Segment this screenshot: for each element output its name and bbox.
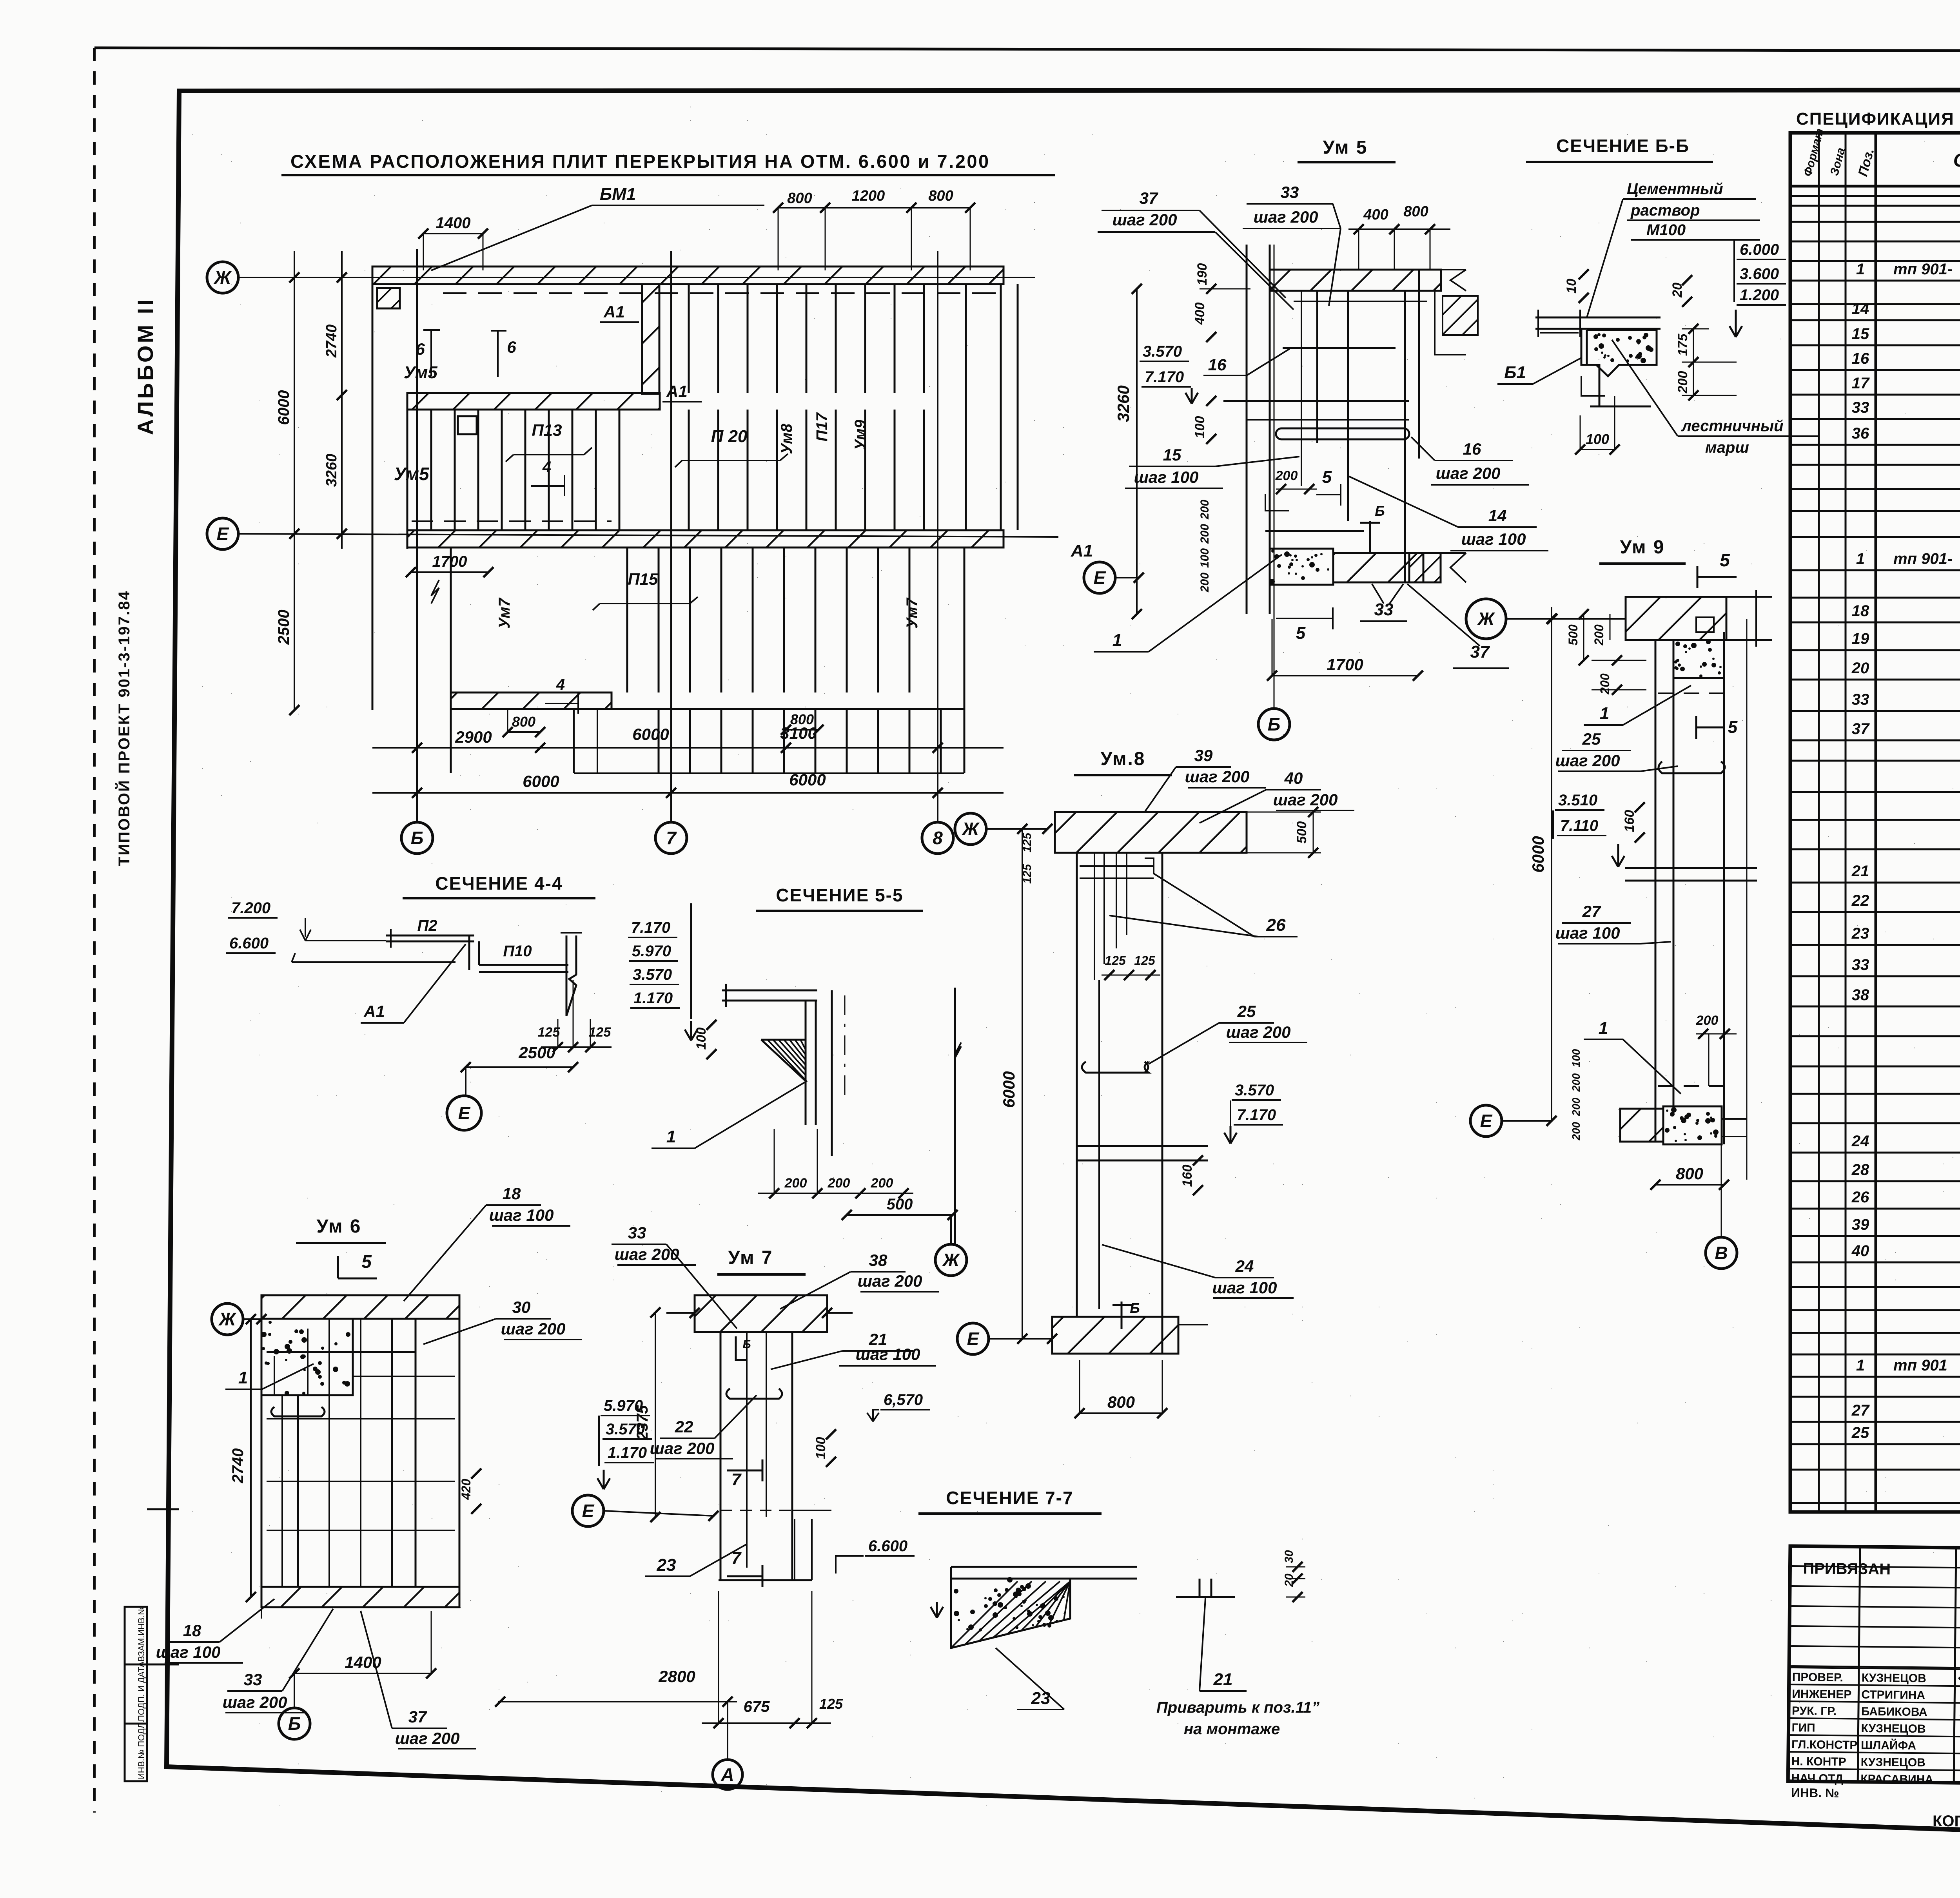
svg-text:КОПИРОВАЛ: КОРШУНОВА: КОПИРОВАЛ: КОРШУНОВА <box>1933 1813 1960 1830</box>
svg-text:2740: 2740 <box>229 1448 247 1484</box>
svg-text:26: 26 <box>1266 915 1286 935</box>
svg-text:16: 16 <box>1208 355 1227 374</box>
svg-text:1700: 1700 <box>1327 655 1363 674</box>
plan axis circle B <box>401 822 433 854</box>
um5 top rebar details <box>1294 301 1427 302</box>
svg-text:Ум9: Ум9 <box>852 419 869 450</box>
svg-text:М100: М100 <box>1646 221 1686 239</box>
um7 rebar verticals <box>746 1332 748 1568</box>
svg-text:Б1: Б1 <box>1504 363 1526 382</box>
svg-text:шаг 100: шаг 100 <box>1555 924 1620 942</box>
svg-text:Б: Б <box>1268 714 1281 734</box>
svg-text:Е: Е <box>1094 567 1106 588</box>
um8 stirrup hooks <box>1082 1062 1148 1073</box>
svg-text:20: 20 <box>1283 1574 1296 1587</box>
svg-text:5.970: 5.970 <box>632 943 671 960</box>
svg-text:10: 10 <box>1564 279 1579 294</box>
section 5-5 axis circle Zh <box>935 1244 967 1276</box>
svg-text:БАБИКОВА: БАБИКОВА <box>1861 1705 1927 1719</box>
svg-text:Б: Б <box>1130 1300 1140 1316</box>
svg-text:Н. КОНТР: Н. КОНТР <box>1791 1755 1846 1768</box>
svg-text:ПРОВЕР.: ПРОВЕР. <box>1792 1671 1843 1684</box>
um9 concrete under slab <box>1673 640 1724 678</box>
um9 vertical dim 6000 <box>1551 607 1552 1121</box>
svg-text:200: 200 <box>1198 500 1211 520</box>
plan left dim 6000/2500 line <box>294 251 295 710</box>
um8 axis circle E <box>957 1323 989 1354</box>
svg-text:16: 16 <box>1852 350 1869 367</box>
um8 mid horizontal lines <box>1077 1145 1208 1147</box>
um5 bottom concrete block <box>1270 549 1333 585</box>
um5 dim 1700 bottom <box>1272 675 1418 676</box>
svg-text:200: 200 <box>784 1176 807 1191</box>
svg-text:23: 23 <box>1851 925 1869 942</box>
svg-text:2900: 2900 <box>455 728 492 746</box>
um8 detail lines below slab <box>1080 865 1154 867</box>
section 5-5 vertical dim line right <box>954 988 956 1244</box>
svg-text:АЛЬБОМ II: АЛЬБОМ II <box>133 297 158 435</box>
um5 section flag 5 upper <box>1369 521 1371 553</box>
svg-text:КУЗНЕЦОВ: КУЗНЕЦОВ <box>1861 1756 1926 1769</box>
svg-text:33: 33 <box>244 1670 262 1689</box>
um8 rebar verticals <box>1094 853 1095 980</box>
title block signatures scribble <box>1958 1675 1960 1778</box>
svg-text:23: 23 <box>657 1555 676 1575</box>
svg-text:5: 5 <box>1728 718 1738 737</box>
plan middle wall hatched <box>407 393 660 410</box>
svg-text:21: 21 <box>1851 863 1869 880</box>
spec table header row line <box>1790 185 1960 188</box>
section b-b concrete wedge <box>1587 330 1657 376</box>
svg-text:40: 40 <box>1851 1242 1869 1260</box>
svg-text:П17: П17 <box>813 412 831 442</box>
svg-text:22: 22 <box>675 1418 693 1436</box>
svg-text:3.510: 3.510 <box>1558 792 1597 809</box>
plan left boundary lines <box>372 284 374 710</box>
plan dashed plate edge below top wall <box>443 292 996 294</box>
um9 wall verticals <box>1655 640 1657 1142</box>
plan bottom dim 800 right <box>786 729 818 731</box>
svg-text:шаг 200: шаг 200 <box>1226 1023 1291 1041</box>
svg-text:Е: Е <box>1480 1111 1493 1131</box>
svg-text:7.170: 7.170 <box>1145 368 1184 386</box>
svg-text:200: 200 <box>1592 624 1606 646</box>
svg-text:27: 27 <box>1582 902 1601 921</box>
um7 top slab hatched <box>695 1295 827 1332</box>
svg-text:6: 6 <box>416 340 425 358</box>
title block signature rows <box>1789 1668 1960 1670</box>
svg-text:шаг 100: шаг 100 <box>1212 1278 1277 1297</box>
um5 rebar verticals <box>1301 291 1302 486</box>
svg-text:Ум.8: Ум.8 <box>1100 749 1145 769</box>
svg-text:ВЗАМ.ИНВ.№: ВЗАМ.ИНВ.№ <box>136 1606 146 1662</box>
svg-text:6.600: 6.600 <box>229 935 269 952</box>
plan dashed line above axis E wall <box>412 520 612 522</box>
plan bottom dims 6000 6000 <box>372 792 1004 794</box>
svg-text:24: 24 <box>1851 1133 1869 1150</box>
um7 section flag 5 inside <box>736 1336 747 1360</box>
svg-text:125: 125 <box>589 1025 612 1040</box>
um8 section flag B bottom <box>1121 1302 1123 1329</box>
section b-b elevation stack 6.000 3.600 1.200 <box>1733 240 1735 302</box>
svg-text:33: 33 <box>1852 399 1869 416</box>
svg-text:160: 160 <box>1622 810 1637 832</box>
um5 axis circle B bottom <box>1258 709 1290 740</box>
svg-text:КУЗНЕЦОВ: КУЗНЕЦОВ <box>1861 1722 1926 1736</box>
svg-text:шаг 100: шаг 100 <box>1134 468 1199 486</box>
svg-text:марш: марш <box>1705 439 1749 456</box>
section 5-5 corbel hatched <box>761 1040 806 1081</box>
svg-text:24: 24 <box>1235 1257 1254 1275</box>
svg-text:1700: 1700 <box>432 553 467 570</box>
section b-b step outline <box>1581 329 1599 406</box>
svg-text:П10: П10 <box>503 943 532 960</box>
svg-text:ПОДП. И ДАТА: ПОДП. И ДАТА <box>136 1661 146 1721</box>
svg-text:Приварить к поз.11”: Приварить к поз.11” <box>1156 1699 1319 1716</box>
svg-text:шаг 200: шаг 200 <box>223 1693 287 1711</box>
plan right wall lines <box>965 284 967 530</box>
svg-text:19: 19 <box>1852 630 1869 647</box>
svg-text:7: 7 <box>731 1470 742 1489</box>
svg-text:15: 15 <box>1163 446 1181 464</box>
plan axis circle 8 <box>922 822 953 854</box>
um9 dim 800 bottom <box>1655 1184 1724 1186</box>
title block thin rows top left <box>1790 1566 1960 1569</box>
um9 axis circle Zh <box>1466 599 1506 639</box>
svg-text:БМ1: БМ1 <box>600 185 636 204</box>
title block outer box <box>1788 1546 1960 1789</box>
plan axis circle 7 <box>655 822 687 854</box>
svg-text:А1: А1 <box>1071 541 1093 560</box>
plan top dims 800 1200 800 <box>778 207 970 208</box>
plan plate joint lines right of wall column <box>688 410 690 530</box>
plan lower walls <box>451 692 612 709</box>
um6 axis circle B <box>279 1708 310 1739</box>
svg-text:шаг 200: шаг 200 <box>395 1729 460 1748</box>
svg-text:6000: 6000 <box>1529 836 1547 872</box>
svg-text:Ум5: Ум5 <box>404 363 437 382</box>
svg-text:1: 1 <box>1599 1019 1608 1038</box>
um6 dim 2740 rotated <box>250 1319 252 1597</box>
svg-text:Ум5: Ум5 <box>394 464 430 484</box>
svg-text:Обозначение: Обозначение <box>1953 150 1960 171</box>
svg-text:800: 800 <box>1403 203 1428 220</box>
plan top dim 1400 <box>423 233 483 234</box>
svg-text:100: 100 <box>1586 431 1609 447</box>
svg-text:100: 100 <box>1570 1049 1582 1067</box>
title block group <box>1788 1546 1960 1807</box>
svg-text:тп 901-: тп 901- <box>1893 261 1953 278</box>
svg-text:1: 1 <box>238 1368 248 1387</box>
svg-text:Б: Б <box>1375 503 1385 519</box>
svg-text:1400: 1400 <box>345 1653 381 1671</box>
svg-text:18: 18 <box>183 1621 201 1640</box>
section 4-4 axis circle E <box>447 1096 481 1130</box>
svg-text:40: 40 <box>1284 769 1303 787</box>
svg-text:шаг 200: шаг 200 <box>1112 210 1177 229</box>
svg-text:125: 125 <box>1105 954 1126 968</box>
svg-text:200: 200 <box>1598 673 1612 695</box>
svg-text:Ум 5: Ум 5 <box>1323 137 1368 158</box>
svg-text:6000: 6000 <box>523 772 559 790</box>
svg-text:7.170: 7.170 <box>631 919 670 936</box>
svg-text:23: 23 <box>1031 1689 1051 1708</box>
svg-text:6000: 6000 <box>275 390 292 425</box>
svg-text:37: 37 <box>408 1708 427 1726</box>
svg-text:7: 7 <box>731 1548 742 1568</box>
svg-text:1: 1 <box>1856 261 1865 278</box>
plan bottom dim 800 left <box>508 731 540 733</box>
svg-text:17: 17 <box>1852 375 1870 392</box>
svg-text:7.170: 7.170 <box>1237 1106 1276 1124</box>
svg-text:Цементный: Цементный <box>1627 180 1723 198</box>
svg-text:СЕЧЕНИЕ 7-7: СЕЧЕНИЕ 7-7 <box>946 1488 1073 1508</box>
svg-text:6000: 6000 <box>632 725 669 743</box>
plan plate joint lines upper right room <box>688 284 690 393</box>
svg-text:1200: 1200 <box>852 188 885 204</box>
svg-text:200: 200 <box>1198 573 1211 593</box>
plan axis line Zh <box>238 277 1035 278</box>
um6 top slab hatched <box>261 1295 459 1319</box>
um9 top slab hatched <box>1626 597 1726 640</box>
svg-text:шаг 100: шаг 100 <box>489 1206 554 1224</box>
svg-text:675: 675 <box>744 1698 770 1715</box>
svg-text:3.570: 3.570 <box>633 966 672 983</box>
svg-text:шаг 200: шаг 200 <box>1436 464 1501 482</box>
um5 step detail lines <box>1265 494 1289 511</box>
svg-text:21: 21 <box>1213 1670 1233 1689</box>
section b-b dim 100 <box>1580 449 1615 450</box>
svg-text:3.570: 3.570 <box>1143 343 1182 360</box>
svg-text:39: 39 <box>1852 1216 1869 1233</box>
um8 long rebar <box>1098 980 1100 1309</box>
svg-text:1.170: 1.170 <box>633 990 673 1007</box>
svg-text:Ум 7: Ум 7 <box>728 1247 773 1268</box>
svg-text:400: 400 <box>1192 303 1207 325</box>
page outer cut border <box>94 48 1960 51</box>
um7 wall verticals <box>720 1332 722 1580</box>
svg-text:Ж: Ж <box>1477 609 1495 629</box>
svg-text:1.200: 1.200 <box>1740 286 1779 304</box>
svg-text:тп 901-: тп 901- <box>1893 550 1953 567</box>
svg-text:ИНВ.№ ПОДЛ.: ИНВ.№ ПОДЛ. <box>136 1720 146 1779</box>
section b-b slab lines <box>1535 317 1661 319</box>
svg-text:14: 14 <box>1488 506 1507 525</box>
svg-text:200: 200 <box>1275 468 1298 483</box>
svg-text:37: 37 <box>1140 189 1158 207</box>
svg-text:5: 5 <box>361 1251 372 1272</box>
svg-text:ГИП: ГИП <box>1791 1721 1815 1735</box>
margin tick lines <box>147 1508 179 1510</box>
svg-text:28: 28 <box>1851 1161 1869 1178</box>
svg-text:38: 38 <box>869 1251 887 1269</box>
svg-text:800: 800 <box>1107 1393 1135 1411</box>
svg-text:18: 18 <box>1852 602 1869 620</box>
svg-text:1: 1 <box>1856 1357 1865 1374</box>
svg-text:38: 38 <box>1852 986 1869 1004</box>
svg-text:7.200: 7.200 <box>231 899 270 917</box>
svg-text:СПЕЦИФИКАЦИЯ К МОНОЛИТНЫМ УЧА: СПЕЦИФИКАЦИЯ К МОНОЛИТНЫМ УЧАСТКАМ Ум5÷У… <box>1796 109 1960 129</box>
svg-text:лестничный: лестничный <box>1681 417 1784 435</box>
svg-text:27: 27 <box>1851 1402 1870 1419</box>
um7 slab edge verticals right <box>794 1519 795 1580</box>
left margin stamp strip <box>125 1607 147 1781</box>
svg-text:800: 800 <box>1676 1164 1703 1183</box>
um6 bottom slab hatched <box>261 1587 459 1607</box>
plan bottom room lines <box>612 708 964 710</box>
svg-text:6.000: 6.000 <box>1740 241 1779 258</box>
plan axis line 7 vertical <box>670 251 672 822</box>
svg-text:СЕЧЕНИЕ 5-5: СЕЧЕНИЕ 5-5 <box>776 885 903 905</box>
svg-text:200: 200 <box>871 1176 893 1191</box>
svg-text:18: 18 <box>503 1184 521 1203</box>
svg-text:2740: 2740 <box>323 324 340 358</box>
svg-text:Ж: Ж <box>962 819 980 839</box>
svg-text:16: 16 <box>1463 440 1481 458</box>
svg-text:РУК. ГР.: РУК. ГР. <box>1792 1704 1837 1718</box>
svg-text:36: 36 <box>1852 425 1869 442</box>
svg-text:37: 37 <box>1470 642 1490 662</box>
um6 concrete block left <box>261 1319 353 1395</box>
um5 axis circle E <box>1084 562 1115 593</box>
svg-text:3260: 3260 <box>1114 385 1132 422</box>
svg-text:3.570: 3.570 <box>1235 1082 1274 1099</box>
svg-text:3260: 3260 <box>323 454 340 487</box>
svg-text:ТИПОВОЙ ПРОЕКТ 901-3-197.84: ТИПОВОЙ ПРОЕКТ 901-3-197.84 <box>115 590 133 866</box>
svg-text:П 20: П 20 <box>711 427 748 446</box>
plan stair room plate lines <box>658 709 660 773</box>
svg-text:420: 420 <box>459 1479 473 1500</box>
plan lower room plate lines <box>626 547 628 692</box>
svg-text:Ум7: Ум7 <box>496 597 513 629</box>
section 7-7 right member <box>1199 1579 1201 1597</box>
svg-text:6: 6 <box>507 338 516 356</box>
svg-text:шаг 100: шаг 100 <box>856 1345 920 1363</box>
um6 axis circle Zh <box>212 1303 243 1335</box>
svg-text:раствор: раствор <box>1630 202 1700 219</box>
svg-text:2375: 2375 <box>634 1405 651 1441</box>
svg-text:НАЧ.ОТД: НАЧ.ОТД <box>1791 1772 1843 1785</box>
svg-text:тп 901: тп 901 <box>1893 1357 1947 1374</box>
svg-text:СЕЧЕНИЕ 4-4: СЕЧЕНИЕ 4-4 <box>435 873 563 894</box>
svg-text:2500: 2500 <box>518 1043 555 1062</box>
um9 dashed line bottom <box>1658 1085 1725 1087</box>
svg-text:шаг 200: шаг 200 <box>501 1320 566 1338</box>
svg-text:15: 15 <box>1852 325 1869 343</box>
section 5-5 bottom dims 200 200 200 <box>758 1193 913 1194</box>
svg-text:125: 125 <box>1134 954 1156 968</box>
plan axis circle E <box>207 518 238 549</box>
svg-text:А: А <box>720 1764 734 1785</box>
svg-text:125: 125 <box>538 1025 561 1040</box>
svg-text:33: 33 <box>628 1224 646 1242</box>
svg-text:200: 200 <box>1570 1097 1582 1116</box>
svg-text:В: В <box>1715 1243 1728 1263</box>
svg-text:на монтаже: на монтаже <box>1184 1720 1280 1738</box>
svg-text:500: 500 <box>1294 821 1309 844</box>
svg-text:800: 800 <box>512 714 535 730</box>
svg-text:Б: Б <box>411 828 424 848</box>
svg-text:7.110: 7.110 <box>1560 817 1598 834</box>
svg-text:4: 4 <box>542 459 551 476</box>
plan plate joint lines middle room <box>430 410 432 530</box>
svg-text:200: 200 <box>1198 524 1211 544</box>
svg-text:Ж: Ж <box>214 267 232 288</box>
plan small insert below <box>458 416 477 434</box>
plan right upper wall column <box>642 284 659 394</box>
svg-text:СХЕМА РАСПОЛОЖЕНИЯ ПЛИТ ПЕРЕКР: СХЕМА РАСПОЛОЖЕНИЯ ПЛИТ ПЕРЕКРЫТИЯ НА ОТ… <box>290 151 990 172</box>
svg-text:шаг 200: шаг 200 <box>1273 790 1338 809</box>
svg-text:22: 22 <box>1851 892 1869 909</box>
plan bottom dims 2900 6000 3100 <box>372 747 1004 749</box>
svg-text:Ум 9: Ум 9 <box>1620 537 1665 558</box>
svg-text:5: 5 <box>1322 468 1332 487</box>
svg-text:400: 400 <box>1363 207 1388 223</box>
svg-text:100: 100 <box>1192 416 1207 439</box>
svg-text:6,570: 6,570 <box>884 1391 923 1409</box>
svg-text:200: 200 <box>1675 371 1690 394</box>
um5 top slab hatched <box>1270 270 1441 291</box>
svg-text:1: 1 <box>1600 704 1609 723</box>
svg-text:25: 25 <box>1582 730 1601 748</box>
svg-text:Ум8: Ум8 <box>778 423 795 454</box>
svg-text:200: 200 <box>1570 1122 1582 1140</box>
svg-text:Б: Б <box>288 1713 301 1734</box>
plan left dim 2740/3260 line <box>341 251 343 549</box>
section 4-4 right column <box>566 935 568 1016</box>
plan axis line E <box>238 534 1058 537</box>
svg-text:100: 100 <box>694 1028 709 1050</box>
um8 dim 500 rotated <box>1313 812 1314 853</box>
spec table column lines <box>1818 133 1820 1512</box>
um9 section flag 5 lower <box>1695 716 1697 739</box>
svg-text:6.600: 6.600 <box>868 1537 907 1555</box>
svg-text:шаг 200: шаг 200 <box>1555 751 1620 770</box>
spec table outer box <box>1790 133 1960 1512</box>
plan break mark <box>431 580 439 604</box>
svg-text:шаг 100: шаг 100 <box>1461 530 1526 548</box>
um9 mid horizontal lines <box>1625 867 1757 869</box>
section 7-7 slab lines <box>951 1566 1137 1568</box>
um8 wall verticals <box>1076 853 1078 1317</box>
svg-text:33: 33 <box>1852 691 1869 708</box>
plan axis line B vertical <box>416 249 418 822</box>
svg-text:Ж: Ж <box>942 1250 960 1270</box>
svg-text:шаг 200: шаг 200 <box>1185 767 1250 786</box>
svg-text:25: 25 <box>1237 1002 1256 1021</box>
svg-text:8: 8 <box>933 828 943 848</box>
um5 axis line B vertical <box>1274 245 1275 709</box>
svg-text:Ум7: Ум7 <box>904 597 921 629</box>
um6 wall verticals <box>261 1319 263 1607</box>
svg-text:20: 20 <box>1851 660 1869 677</box>
svg-text:160: 160 <box>1180 1165 1195 1187</box>
svg-text:ГЛ.КОНСТР: ГЛ.КОНСТР <box>1791 1738 1858 1752</box>
um9 axis line to circle V <box>1721 1144 1722 1237</box>
um7 stirrup hook <box>726 1389 782 1399</box>
svg-text:шаг 100: шаг 100 <box>156 1643 221 1661</box>
svg-text:1400: 1400 <box>436 214 471 232</box>
um9 stirrup hook <box>1659 761 1725 773</box>
um8 top slab hatched <box>1055 812 1247 853</box>
section 5-5 wall column <box>805 1001 807 1125</box>
um8 vertical dim 6000 <box>1022 829 1023 1339</box>
um7 dim 2375 rotated <box>655 1312 656 1517</box>
svg-text:5: 5 <box>1720 550 1730 570</box>
svg-text:800: 800 <box>928 188 953 204</box>
svg-text:шаг 200: шаг 200 <box>650 1439 715 1457</box>
svg-text:200: 200 <box>1696 1013 1719 1028</box>
